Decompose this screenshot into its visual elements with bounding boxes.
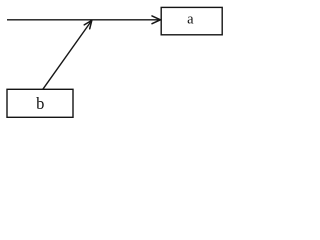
svg-text:b: b	[36, 94, 44, 113]
svg-text:a: a	[187, 11, 194, 27]
